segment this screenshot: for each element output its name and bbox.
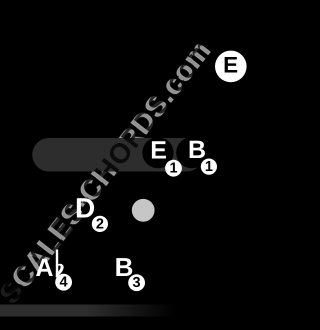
grey open dot [132,199,155,222]
svg-text:B: B [188,136,206,164]
barre fret bar [32,138,203,172]
watermark dark layer [0,31,220,306]
watermark highlight layer [0,34,217,309]
finger badge 1 (B) [201,159,217,175]
svg-text:4: 4 [60,275,68,291]
svg-text:E: E [150,136,167,164]
svg-text:2: 2 [96,216,104,232]
finger dot E [142,137,173,168]
finger dot B [176,137,207,168]
finger badge 2 (D) [92,216,108,232]
finger badge 4 (Ab) [55,274,72,291]
svg-text:3: 3 [133,275,141,291]
bottom fret band [0,305,175,317]
open string circle E [215,51,247,83]
finger badge 1 (E) [165,160,182,177]
svg-text:D: D [75,192,95,223]
svg-text:A: A [35,254,53,282]
finger badge 3 (B) [128,274,145,291]
svg-text:1: 1 [169,161,177,177]
svg-text:1: 1 [205,159,213,175]
svg-text:E: E [223,53,238,78]
